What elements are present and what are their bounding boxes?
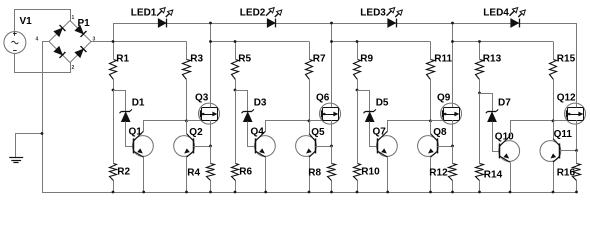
LED4 emission arrows	[510, 8, 526, 17]
wire Q11 base	[560, 150, 577, 152]
junction R12 ground	[451, 191, 454, 194]
transistor Q2	[174, 134, 195, 158]
junction collector node	[185, 120, 188, 123]
junction drain feed line	[451, 40, 454, 43]
wire Q5 emitter	[309, 157, 311, 192]
svg-text:R14: R14	[484, 169, 503, 180]
svg-text:R16: R16	[557, 167, 576, 178]
label R10	[361, 166, 380, 177]
svg-text:R12: R12	[429, 167, 448, 178]
svg-text:R11: R11	[434, 53, 452, 64]
label Q3	[195, 93, 209, 104]
wire Q4 collector	[266, 121, 310, 132]
label Q9	[437, 93, 451, 104]
resistor R2	[110, 90, 117, 192]
svg-text:R4: R4	[187, 167, 200, 178]
wire Q10 collector	[511, 121, 554, 137]
wire V1 top to bridge pin 1	[15, 10, 71, 32]
junction Q2 base node	[209, 145, 212, 148]
LED1 emission arrows	[157, 8, 173, 17]
svg-text:R6: R6	[239, 166, 252, 177]
svg-text:4: 4	[36, 37, 39, 43]
AC source V1	[4, 32, 26, 54]
label R16	[557, 167, 576, 178]
wire Q12 drain riser	[576, 23, 578, 107]
junction Q11 emitter ground	[552, 191, 555, 194]
label Q6	[316, 93, 330, 104]
label Q1	[129, 127, 143, 138]
junction Q5 base node	[330, 145, 333, 148]
MOSFET Q6	[320, 103, 341, 124]
wire Q2 base	[193, 146, 210, 148]
transistor Q10	[499, 136, 520, 162]
label LED4	[483, 7, 509, 18]
wire top LED rail	[113, 23, 577, 25]
label D7	[498, 98, 511, 109]
wire Q9 drain riser	[452, 23, 454, 107]
svg-text:Q4: Q4	[251, 127, 265, 138]
wire gate link	[310, 118, 322, 121]
LED3	[388, 19, 397, 28]
wire feed line unit 3	[332, 41, 431, 43]
wire bottom ground rail	[42, 192, 577, 194]
MOSFET Q3	[199, 103, 220, 124]
resistor R16	[573, 151, 581, 193]
svg-text:D1: D1	[132, 98, 145, 109]
wire Q9 source	[452, 120, 454, 146]
junction R6 ground	[234, 191, 237, 194]
junction R2 ground	[112, 191, 115, 194]
label D5	[376, 98, 389, 109]
wire Q4 emitter	[265, 157, 267, 192]
svg-text:LED1: LED1	[131, 7, 157, 18]
label R4	[187, 167, 200, 178]
wire ground tap	[16, 134, 43, 158]
junction R4 ground	[209, 191, 212, 194]
transistor Q8	[418, 134, 439, 158]
svg-text:Q5: Q5	[311, 127, 325, 138]
zener diode D1	[120, 109, 132, 121]
LED4	[511, 19, 520, 28]
resistor R3	[183, 42, 191, 121]
svg-text:Q6: Q6	[316, 93, 330, 104]
wire Q6 source	[331, 120, 333, 146]
transistor Q1	[133, 131, 154, 157]
wire gate link	[554, 118, 567, 121]
label R8	[308, 167, 321, 178]
svg-text:Q1: Q1	[129, 127, 143, 138]
label Q4	[251, 127, 265, 138]
junction R16 ground	[575, 191, 578, 194]
label R7	[313, 53, 326, 64]
junction Q11 base node	[575, 149, 578, 152]
label Q12	[557, 93, 576, 104]
transistor Q4	[255, 131, 276, 157]
wire gate link	[187, 118, 201, 121]
svg-text:1: 1	[72, 15, 75, 21]
wire Q8 base	[437, 146, 452, 148]
wire feed line unit 2	[211, 41, 310, 43]
resistor R9	[354, 42, 361, 91]
wire zener branch	[358, 91, 370, 112]
svg-text:V1: V1	[20, 16, 33, 27]
svg-text:LED4: LED4	[483, 7, 509, 18]
MOSFET Q9	[441, 103, 462, 124]
resistor R5	[232, 42, 239, 91]
label Q5	[311, 127, 325, 138]
junction drain top rail	[451, 22, 454, 25]
label R6	[239, 166, 252, 177]
junction zener tap	[356, 89, 359, 92]
junction collector node	[429, 120, 432, 123]
svg-text:R13: R13	[483, 53, 502, 64]
wire Q3 drain riser	[210, 23, 212, 107]
svg-text:R9: R9	[360, 53, 373, 64]
LED3 emission arrows	[387, 8, 403, 17]
wire Q7 emitter	[387, 157, 389, 192]
svg-text:R3: R3	[190, 53, 203, 64]
junction node A top	[112, 40, 115, 43]
label LED3	[360, 7, 386, 18]
wire Q1 collector	[144, 121, 187, 132]
bridge rectifier P1 outline	[49, 21, 91, 63]
LED1	[158, 19, 166, 28]
wire Q1 emitter	[143, 157, 145, 192]
resistor R6	[232, 90, 239, 192]
junction R10 ground	[356, 191, 359, 194]
junction drain feed line	[209, 40, 212, 43]
resistor R14	[476, 93, 484, 192]
junction Q4 emitter ground	[264, 191, 267, 194]
junction node A top	[234, 40, 237, 43]
pin 1	[72, 15, 75, 21]
junction ground tap	[41, 132, 44, 135]
svg-text:R5: R5	[238, 53, 251, 64]
wire bridge pin 4 down left side	[43, 42, 50, 193]
label R13	[483, 53, 502, 64]
wire Q11 emitter	[553, 162, 555, 192]
svg-text:Q12: Q12	[557, 93, 576, 104]
svg-text:P1: P1	[78, 18, 91, 29]
label D1	[132, 98, 145, 109]
wire feed line unit 4	[453, 41, 554, 43]
svg-text:Q2: Q2	[189, 127, 203, 138]
junction Q10 emitter ground	[509, 191, 512, 194]
wire zener branch	[480, 94, 493, 112]
pin 4	[36, 37, 39, 43]
label R14	[484, 169, 503, 180]
resistor R12	[449, 146, 457, 192]
junction zener tap	[478, 92, 481, 95]
wire Q10 emitter	[510, 162, 512, 192]
wire zener to Q4 base	[248, 122, 256, 147]
svg-text:Q9: Q9	[437, 93, 451, 104]
transistor Q11	[540, 139, 561, 163]
label Q8	[433, 127, 447, 138]
label Q11	[554, 129, 573, 140]
svg-text:LED3: LED3	[360, 7, 386, 18]
bridge diode top-right (anode pin 1, cathode pin 3)	[75, 25, 87, 37]
wire zener to Q7 base	[370, 122, 378, 147]
resistor R11	[427, 42, 435, 121]
bridge diode top-left (anode pin 4, cathode pin 1)	[54, 25, 66, 37]
svg-text:Q8: Q8	[433, 127, 447, 138]
label R11	[434, 53, 452, 64]
svg-text:R15: R15	[557, 53, 576, 64]
svg-text:D7: D7	[498, 98, 511, 109]
wire Q12 source	[576, 120, 578, 150]
junction node A top	[478, 40, 481, 43]
svg-text:D5: D5	[376, 98, 389, 109]
junction collector node	[308, 120, 311, 123]
svg-text:Q11: Q11	[554, 129, 573, 140]
label P1	[78, 18, 91, 29]
wire Q2 emitter	[186, 157, 188, 192]
svg-text:R8: R8	[308, 167, 321, 178]
svg-text:2: 2	[72, 65, 75, 71]
bridge diode bottom-left (anode pin 4, cathode pin 2)	[54, 46, 66, 58]
bridge diode bottom-right (anode pin 2, cathode pin 3)	[75, 46, 87, 58]
LED2	[267, 19, 275, 28]
svg-text:Q10: Q10	[495, 132, 514, 143]
junction zener tap	[112, 89, 115, 92]
label R15	[557, 53, 576, 64]
zener diode D3	[242, 109, 254, 121]
MOSFET Q12	[565, 103, 586, 124]
transistor Q5	[296, 134, 317, 158]
wire zener branch	[236, 91, 248, 112]
wire V1 bottom to bridge pin 2	[15, 54, 71, 73]
junction drain top rail	[209, 22, 212, 25]
wire bridge pin 3 output	[91, 41, 187, 43]
wire zener to Q1 base	[126, 122, 134, 147]
wire Q5 collector	[309, 121, 311, 134]
junction node A top	[356, 40, 359, 43]
resistor R15	[550, 42, 557, 121]
wire Q3 source	[210, 120, 212, 146]
transistor Q7	[377, 131, 398, 157]
label R9	[360, 53, 373, 64]
label Q10	[495, 132, 514, 143]
resistor R8	[328, 146, 336, 192]
svg-text:Q7: Q7	[373, 127, 387, 138]
resistor R7	[306, 42, 313, 121]
wire Q8 emitter	[430, 157, 432, 192]
label R1	[116, 53, 129, 64]
resistor R10	[354, 90, 361, 192]
junction Q2 emitter ground	[185, 191, 188, 194]
svg-text:R10: R10	[361, 166, 380, 177]
svg-text:R7: R7	[313, 53, 326, 64]
svg-text:LED2: LED2	[240, 7, 266, 18]
label Q7	[373, 127, 387, 138]
zener diode D7	[486, 109, 498, 121]
wire zener branch	[114, 91, 126, 112]
label D3	[254, 98, 267, 109]
wire Q6 drain riser	[331, 23, 333, 107]
label LED1	[131, 7, 157, 18]
junction collector node	[552, 120, 555, 123]
wire Q7 collector	[388, 121, 431, 132]
junction Q8 emitter ground	[429, 191, 432, 194]
pin 3	[93, 37, 96, 43]
junction R8 ground	[330, 191, 333, 194]
junction Q7 emitter ground	[386, 191, 389, 194]
svg-text:R2: R2	[117, 166, 130, 177]
label LED2	[240, 7, 266, 18]
junction zener tap	[234, 89, 237, 92]
wire zener to Q10 base	[493, 122, 500, 152]
label R2	[117, 166, 130, 177]
junction Q1 emitter ground	[142, 191, 145, 194]
wire gate link	[431, 118, 443, 121]
pin 2	[72, 65, 75, 71]
wire Q5 base	[315, 146, 331, 148]
wire Q11 collector	[553, 121, 555, 139]
svg-text:Q3: Q3	[195, 93, 209, 104]
label R3	[190, 53, 203, 64]
junction Q8 base node	[451, 145, 454, 148]
LED2 emission arrows	[266, 8, 282, 17]
svg-text:R1: R1	[116, 53, 129, 64]
wire riser node A to top rail	[113, 23, 115, 42]
svg-text:D3: D3	[254, 98, 267, 109]
label R5	[238, 53, 251, 64]
junction drain feed line	[330, 40, 333, 43]
wire Q2 collector	[186, 121, 188, 134]
wire Q8 collector	[430, 121, 432, 134]
junction drain top rail	[330, 22, 333, 25]
resistor R13	[476, 42, 484, 94]
resistor R4	[207, 146, 215, 192]
junction Q5 emitter ground	[308, 191, 311, 194]
label Q2	[189, 127, 203, 138]
junction R14 ground	[478, 191, 481, 194]
label R12	[429, 167, 448, 178]
zener diode D5	[364, 109, 376, 121]
label V1	[20, 16, 33, 27]
ground	[9, 158, 23, 163]
resistor R1	[110, 42, 117, 91]
